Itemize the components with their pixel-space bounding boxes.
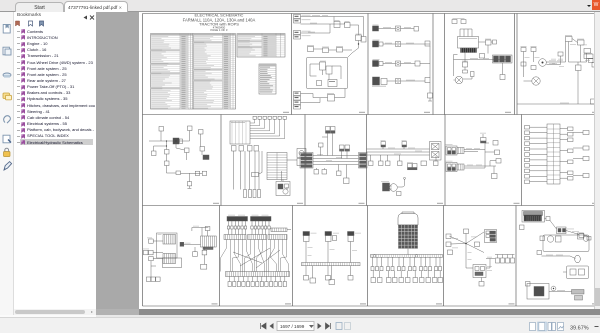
fuse F2 xyxy=(361,37,366,43)
lamp cluster right column xyxy=(560,127,573,180)
wire row1 xyxy=(379,27,396,28)
connector header bar right xyxy=(251,215,272,221)
wire right drop xyxy=(502,63,504,75)
label plate xyxy=(452,18,466,23)
fuse row top xyxy=(253,116,286,119)
terminal ladder X19 xyxy=(547,124,560,184)
lamp cluster left column xyxy=(525,126,548,184)
terminal T21 xyxy=(337,171,342,176)
connector X6 xyxy=(373,40,384,47)
wire row1 right xyxy=(401,27,415,28)
fuse hangers tier1 xyxy=(371,267,442,271)
terminal T8 xyxy=(147,238,163,244)
resistor R3 xyxy=(480,54,485,59)
switch S7 xyxy=(188,126,193,131)
capacitor C1 xyxy=(471,72,475,77)
relay K6 xyxy=(577,39,584,45)
wire drop C1 left xyxy=(151,261,156,277)
junction box assembly left xyxy=(157,233,178,264)
wire A5 risers xyxy=(569,39,594,66)
resistor R6 xyxy=(576,65,582,71)
svg-text:39.67%: 39.67% xyxy=(570,325,589,331)
wire across diode row xyxy=(314,49,353,50)
sensor B1 xyxy=(396,26,401,31)
wire cascade C2 xyxy=(221,240,289,272)
terminal T17 xyxy=(579,234,591,240)
connector X12 xyxy=(203,155,209,160)
wire loom ECU to fuses xyxy=(250,119,285,138)
sensor B9 with gauge xyxy=(547,236,561,242)
switch S3 xyxy=(521,62,526,66)
wire riser B5 xyxy=(485,143,495,168)
connector X10 xyxy=(531,46,537,51)
terminal T5 xyxy=(500,75,505,80)
sheet reference labels top row xyxy=(283,112,598,113)
junction node A xyxy=(358,41,359,49)
ECU module A3 xyxy=(458,37,479,49)
terminal T31 xyxy=(490,159,501,167)
wire harness B1 xyxy=(149,131,202,182)
inline connector P3 xyxy=(480,133,486,143)
label connector pair top xyxy=(326,127,336,134)
sheet reference labels bottom row xyxy=(212,303,599,304)
fuse hangers tier2 xyxy=(371,271,443,283)
fuse F4 xyxy=(493,40,497,44)
wire ECU top leads xyxy=(460,29,472,37)
terminal T6 xyxy=(591,99,596,104)
terminal T30 xyxy=(495,150,500,155)
wire A5 mid labels xyxy=(525,57,564,64)
wire right drop xyxy=(420,44,430,93)
sensor pair mid B3 xyxy=(340,145,350,159)
wire to key switch xyxy=(301,15,335,21)
connector block right assembly xyxy=(201,236,217,250)
wire fusebox drop xyxy=(407,249,409,255)
transistor Q2 xyxy=(326,66,332,80)
resistor R1 pair xyxy=(322,46,343,52)
wire stubs bars to fans xyxy=(229,229,270,235)
ground strap G4 xyxy=(572,290,585,301)
pin fan under right bar xyxy=(251,221,270,229)
hanging terminal T23 xyxy=(369,155,374,166)
diode D1 xyxy=(307,45,314,51)
battery BT1 box xyxy=(563,266,589,279)
resistor bank R8 xyxy=(244,190,261,198)
wire stubs bottom C2 xyxy=(230,277,285,282)
connector pair mid B4 xyxy=(407,162,417,170)
connector X4 stack xyxy=(294,101,301,110)
switch S9 xyxy=(199,130,204,135)
panel grid lines xyxy=(143,14,600,307)
ground G2 xyxy=(187,182,191,189)
wire drop right assembly xyxy=(203,255,205,265)
bulkhead connector XD bar lower xyxy=(226,272,290,277)
terminal T1 xyxy=(414,27,419,32)
switch S8 xyxy=(165,161,170,166)
relay bank K3-K5 xyxy=(493,55,513,63)
shield plate xyxy=(524,212,543,216)
bulkhead connector XC bar xyxy=(268,235,287,240)
injector connector assembly 1 xyxy=(446,144,465,155)
legend table xyxy=(151,34,286,110)
terminal strip far right xyxy=(573,131,589,178)
mini connector bar far right xyxy=(271,228,291,232)
fuse F5 xyxy=(584,49,591,54)
sensor B3 xyxy=(396,61,401,66)
wire row2 xyxy=(383,43,396,44)
sensor B4 xyxy=(396,79,401,84)
relay K2 xyxy=(328,80,337,87)
wire battery feed xyxy=(301,23,345,25)
ECM assembly outline xyxy=(522,211,545,223)
relay K11 cluster xyxy=(550,221,566,234)
connector hatch under ECU xyxy=(461,48,477,53)
wire drops below bus C3 xyxy=(306,266,351,280)
ground terminal G1 xyxy=(428,93,433,101)
svg-text:PAGE 1 OF 3: PAGE 1 OF 3 xyxy=(211,28,228,32)
connector dark pair xyxy=(180,242,201,246)
connector X13 grid xyxy=(267,153,287,180)
connector block left edge xyxy=(300,153,313,169)
terminal pair T33 xyxy=(143,249,163,255)
switch S4 xyxy=(531,66,536,70)
resistor R7 xyxy=(176,171,181,175)
ground G7 xyxy=(314,170,319,175)
wire tee right assembly xyxy=(192,226,208,236)
wire left drop xyxy=(454,55,458,77)
connector X11 xyxy=(173,138,183,144)
equipment outline box C6 xyxy=(543,235,589,252)
lamp E2 xyxy=(152,151,157,156)
wire C6 bottom rail xyxy=(549,290,572,291)
wire pair assembly2 xyxy=(464,165,496,168)
terminal T13 xyxy=(446,234,451,239)
fuse F1 xyxy=(345,21,351,28)
relay K13 xyxy=(421,161,427,166)
ground G5 xyxy=(310,278,316,283)
terminal T10 xyxy=(304,276,309,281)
terminal T7b xyxy=(202,171,206,175)
inline connector P2 xyxy=(402,140,407,149)
wire C6 mid rail xyxy=(542,255,576,259)
wire main bus A4 xyxy=(454,58,511,59)
hanging terminal T26 xyxy=(398,155,403,166)
wire junction dots B1 xyxy=(166,140,177,146)
wire lower harness xyxy=(301,89,346,103)
module A5 small xyxy=(252,173,259,177)
pin fan under left bar xyxy=(227,221,246,229)
motor M3 xyxy=(539,59,547,67)
lamp E4 xyxy=(185,148,190,153)
terminal T27 xyxy=(434,156,439,166)
terminal T12 xyxy=(348,276,353,281)
connector X26 chain1 xyxy=(303,232,317,242)
terminal T4 xyxy=(425,78,430,83)
bulkhead connector XB bar xyxy=(248,235,267,240)
ground G3 xyxy=(201,264,207,269)
hanging terminal T25 xyxy=(386,155,391,166)
terminal T19 xyxy=(537,251,542,255)
connector X1 stack xyxy=(294,15,311,24)
wire chain1 C3 xyxy=(306,242,313,263)
blower switch S5 xyxy=(584,53,593,59)
terminal T32 xyxy=(492,166,498,179)
ignition point xyxy=(551,286,556,291)
fan blower M2 xyxy=(524,77,541,85)
terminal T35 xyxy=(205,227,210,237)
resistor R10 xyxy=(475,242,480,247)
relay K14 xyxy=(202,247,207,255)
connector X3 stack xyxy=(294,92,301,101)
wire row3 right xyxy=(401,62,416,63)
wire row4 xyxy=(387,80,396,82)
wire module to relay feed xyxy=(348,48,359,58)
inline connector P1 xyxy=(381,140,386,149)
injector connector assembly 2 xyxy=(446,161,465,172)
terminal row bottom C2 xyxy=(228,282,287,287)
terminal T11 xyxy=(326,276,331,281)
wire ECU side links xyxy=(463,42,493,79)
terminal T16 xyxy=(479,278,484,287)
wire star junction xyxy=(449,232,484,253)
connector X7 xyxy=(373,59,384,66)
wire to fuse F1 xyxy=(301,24,331,33)
ground G8 xyxy=(322,170,327,175)
connector X8 group xyxy=(372,77,387,87)
wire chain3 C3 xyxy=(351,242,358,263)
control module A8 xyxy=(473,265,492,278)
wire pair assembly1 xyxy=(464,148,485,152)
connector X9 xyxy=(521,46,527,51)
fuse F3 xyxy=(485,39,491,45)
terminal T28 xyxy=(397,192,402,196)
wire color legend sub-table xyxy=(259,64,276,94)
wire C5 drop to module xyxy=(466,244,473,269)
wire drops below bundle B3 xyxy=(317,165,347,179)
terminal T22 xyxy=(344,178,350,184)
lamp E1 xyxy=(327,93,335,101)
wire module to fuse row xyxy=(486,257,495,268)
fuel sender unit xyxy=(575,255,581,263)
fuse box grid block xyxy=(399,225,418,249)
terminal block A5 right xyxy=(585,59,597,68)
horn H1 xyxy=(297,149,306,166)
fuse F9 xyxy=(545,217,551,221)
lamp row bottom left xyxy=(146,277,160,281)
connector X2 stack xyxy=(294,31,311,40)
bulkhead connector XA bar xyxy=(224,235,246,240)
sheet reference labels middle row xyxy=(213,203,598,204)
sensor B2 xyxy=(396,42,401,47)
wire right feed xyxy=(334,17,364,37)
connector X30 dense xyxy=(524,215,542,221)
sensor B5 xyxy=(200,147,205,152)
fuse box housing xyxy=(398,212,418,225)
wire drops B2 xyxy=(234,151,284,190)
terminal T34 xyxy=(149,257,163,261)
schematic sheet frame xyxy=(143,14,600,307)
wire A5 bottom rail xyxy=(517,71,600,105)
terminal T3 xyxy=(415,61,420,66)
title block text xyxy=(183,13,256,33)
terminal T18 xyxy=(520,225,525,230)
terminal T2 xyxy=(425,41,430,46)
starter relay K12 xyxy=(578,233,589,241)
wire bundle from left edge B4 xyxy=(367,148,430,155)
terminal T15 xyxy=(448,250,453,255)
wire chain2 C3 xyxy=(328,242,335,263)
key switch S1 xyxy=(334,20,340,28)
transistor Q1 xyxy=(320,61,327,75)
lamp E3 xyxy=(165,150,170,155)
relay K7 row xyxy=(232,146,259,152)
resistor pack R5 xyxy=(565,35,572,41)
body controller A4 module xyxy=(230,121,250,144)
switch S2 xyxy=(462,61,468,67)
wire drops A5 xyxy=(524,52,534,78)
lamp module below xyxy=(163,258,182,268)
switch S14 xyxy=(464,229,469,244)
connector X5 xyxy=(373,25,379,31)
control module A2 box xyxy=(307,58,348,89)
fuse row C5 xyxy=(495,255,515,264)
connector X28 chain3 xyxy=(348,232,362,242)
pump motor M1 xyxy=(454,76,463,84)
fuse hanger group stubs xyxy=(373,257,441,266)
wire to relay K1 xyxy=(350,25,359,35)
relay K1 xyxy=(356,34,362,41)
wire row3 xyxy=(383,62,396,63)
connector block X16 xyxy=(430,142,442,161)
wire B2 right links xyxy=(282,160,298,190)
flasher unit xyxy=(276,182,290,196)
terminal T29 xyxy=(493,141,498,146)
terminal T14 xyxy=(446,242,451,247)
switch S6 xyxy=(159,127,164,132)
ground G6 xyxy=(329,280,335,285)
alternator G3 xyxy=(381,181,397,191)
terminal T7 xyxy=(195,171,199,175)
relay stack K10 xyxy=(485,230,497,243)
relay K15 xyxy=(558,42,566,63)
resistor R4 xyxy=(463,70,468,73)
connector X27 chain2 xyxy=(325,232,339,242)
connector header bar left xyxy=(227,215,248,221)
wire bundle B3 xyxy=(313,154,359,165)
wire module internal xyxy=(310,64,341,79)
wire motor to resistor pack xyxy=(546,56,565,67)
switch S17 xyxy=(319,143,324,156)
relay K9 xyxy=(193,247,198,256)
wire to T17 xyxy=(566,229,579,235)
wire drops from top pair xyxy=(322,133,333,155)
terminal strip bus C3 xyxy=(302,263,361,266)
wire row2 right xyxy=(401,43,426,44)
connector block right edge xyxy=(359,153,368,169)
starter motor M4 box xyxy=(527,284,549,300)
wire row4 right xyxy=(401,80,426,81)
wire hook B4 xyxy=(398,177,406,187)
switch S16 xyxy=(540,236,545,241)
resistor R2 xyxy=(317,81,322,86)
power bus bar C4 xyxy=(371,255,443,258)
hanging terminal T24 xyxy=(379,155,384,166)
terminal T20 xyxy=(526,282,531,287)
svg-text:1697 / 1699: 1697 / 1699 xyxy=(280,324,305,329)
